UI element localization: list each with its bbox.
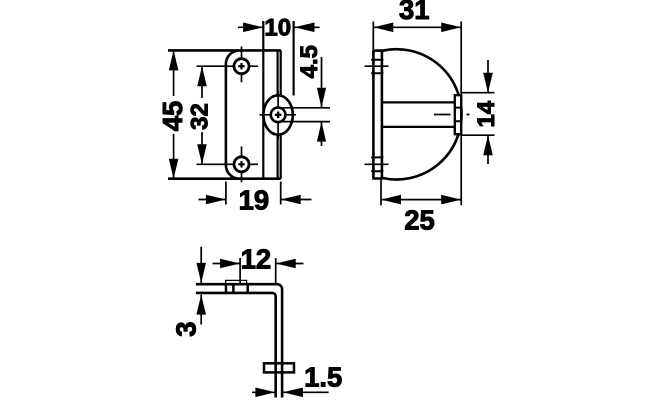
oval boss	[263, 95, 292, 134]
svg-text:3: 3	[170, 321, 201, 336]
side view stem	[382, 102, 455, 127]
screw hole top	[234, 59, 249, 74]
dimension 25 line	[381, 199, 461, 201]
bracket arm top face	[196, 284, 282, 397]
bend line	[262, 21, 264, 179]
dimension 14 lines	[487, 60, 489, 164]
dimension 4.5 arrows	[317, 88, 326, 142]
screw hole bottom	[234, 157, 249, 172]
dimension 4.5 extension lines	[282, 108, 330, 122]
dimension 4.5 lines	[321, 57, 323, 146]
dimension 12 lines	[213, 263, 304, 265]
dimension 31 extension line left	[372, 22, 374, 50]
flange double line left	[277, 50, 279, 178]
dimension 12 extension lines	[240, 258, 276, 284]
screw hole bottom centerline horizontal / 32 extension	[197, 163, 259, 165]
svg-text:31: 31	[399, 0, 430, 25]
svg-text:1.5: 1.5	[304, 362, 342, 393]
side view buffer block	[455, 95, 461, 134]
dimension 10 arrows	[243, 23, 314, 33]
bracket hole ticks	[226, 284, 248, 293]
dimension 1.5 arrows	[255, 388, 303, 398]
side view hole centerline top	[365, 65, 389, 67]
svg-text:32: 32	[187, 103, 214, 130]
dimension 19 arrows	[206, 195, 301, 205]
dimension 45 lines	[173, 50, 175, 178]
side view hole centerline bottom	[365, 163, 389, 165]
dimension 14 extension lines	[461, 93, 494, 136]
bracket buffer rectangle	[264, 363, 294, 372]
oval hole circle	[271, 108, 286, 123]
dimension 25 arrows	[381, 195, 461, 205]
dimension 32 arrows	[197, 66, 207, 164]
side view screw hole ticks bottom	[371, 157, 383, 171]
screw hole top centerline horizontal / 32 extension	[197, 65, 259, 67]
screw hole top centerline vertical	[241, 47, 243, 83]
dimension 10 lines	[238, 26, 320, 28]
dimension 12 arrows	[220, 259, 296, 269]
side view dome arc	[382, 49, 462, 179]
side view right extension line	[460, 22, 462, 206]
dimension 19 extension lines	[226, 182, 281, 205]
screw hole bottom centerline vertical	[241, 147, 243, 183]
dimension 31 line	[373, 26, 461, 28]
svg-text:12: 12	[241, 244, 272, 275]
screw hole top center plus	[238, 63, 244, 69]
dimension 25 extension line left	[380, 180, 382, 205]
svg-text:14: 14	[473, 100, 500, 127]
side view screw hole ticks top	[371, 60, 383, 74]
oval centerline vertical	[277, 91, 279, 139]
svg-text:45: 45	[157, 101, 188, 132]
dimension 14 arrows	[483, 73, 493, 156]
svg-text:10: 10	[264, 15, 291, 42]
flange double line right	[280, 50, 282, 178]
side view stem centerline	[434, 114, 470, 116]
svg-text:19: 19	[239, 184, 270, 215]
svg-text:4.5: 4.5	[296, 45, 323, 78]
dimension 3 arrows	[196, 263, 206, 315]
dimension 1.5 lines	[252, 391, 329, 393]
dimension 19 lines	[199, 199, 312, 201]
dimension 31 arrows	[373, 23, 461, 33]
dimension 45 arrows	[169, 50, 179, 178]
svg-text:25: 25	[404, 204, 435, 235]
bracket arm bottom face	[196, 293, 276, 398]
bracket bump outline	[226, 280, 247, 284]
oval hole center plus	[275, 112, 282, 119]
screw hole bottom center plus	[238, 161, 244, 167]
dimension 3 lines	[200, 247, 202, 325]
plate right edge / 10 extension	[293, 21, 295, 96]
oval centerline horizontal	[260, 114, 297, 116]
front view plate outline	[168, 50, 281, 178]
dimension 32 lines	[201, 66, 203, 164]
side view back plate	[372, 51, 383, 179]
side view buffer inner lines	[455, 108, 461, 122]
